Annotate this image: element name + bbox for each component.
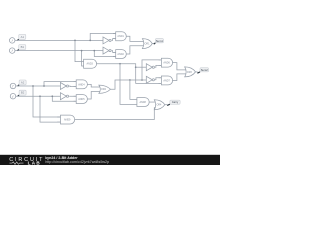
- logic input source V3 (A2): [10, 83, 16, 89]
- wire NOT4 output to AND5 upper input: [69, 95, 76, 97]
- AND gate U15: [159, 58, 173, 67]
- svg-text:AND8: AND8: [139, 101, 146, 104]
- svg-text:AND4: AND4: [78, 83, 85, 86]
- svg-text:OR3: OR3: [187, 71, 193, 74]
- junction B1/AND2: [93, 50, 95, 52]
- wire A2 riser to AND4 top input: [44, 82, 76, 86]
- junction A1/AND3: [74, 40, 76, 42]
- wire NOT2 output to AND2 upper input: [112, 51, 116, 53]
- node name flag A1: [17, 34, 26, 40]
- AND gate U10: [74, 95, 88, 104]
- junction B2/AND9: [39, 95, 41, 97]
- svg-text:AND6: AND6: [163, 62, 170, 65]
- OR gate U5: [142, 39, 152, 49]
- svg-text:Sum1: Sum1: [156, 39, 164, 43]
- NOT gate (inverter) U2: [103, 47, 111, 54]
- wire A2 riser to AND9 top input: [33, 86, 61, 117]
- svg-text:A1: A1: [21, 35, 25, 39]
- wire C1 from AND3 output across to second stage: [96, 64, 161, 84]
- AND gate U16: [159, 76, 173, 85]
- wire NOT6 output to AND7 upper input: [155, 78, 161, 80]
- logic input source V4 (B2): [10, 93, 16, 99]
- wire AND1 output to OR1 upper input: [126, 36, 144, 41]
- node name flag Sum1: [154, 39, 164, 45]
- junction xor rail branch to AND6: [141, 79, 143, 81]
- junction B1/AND3: [81, 50, 83, 52]
- wire AND9 output to OR4 lower input: [74, 108, 155, 120]
- AND gate U3: [113, 32, 126, 41]
- wire AND7 output to OR3 lower input: [172, 74, 186, 81]
- NOT gate (inverter) U7: [60, 83, 68, 90]
- wire NOT3 output to AND4 lower input: [69, 85, 76, 88]
- svg-text:http://circuitlab.com/c42jvrk7: http://circuitlab.com/c42jvrk7wd8s5w2p: [45, 160, 109, 164]
- svg-text:LAB: LAB: [28, 161, 41, 165]
- NOT gate (inverter) U8: [60, 93, 68, 100]
- wire rail riser up to AND6 top input: [142, 60, 161, 80]
- wire AND4 output to OR2 upper input: [87, 84, 100, 87]
- wire NOT5 output to AND6 lower input: [155, 65, 161, 67]
- wire B2 riser to AND5 bottom input: [52, 96, 76, 101]
- svg-text:AND2: AND2: [117, 53, 124, 56]
- AND gate U4: [113, 50, 126, 59]
- wire C1 riser down to AND8 bottom input: [120, 64, 137, 105]
- footer black bar: [0, 155, 220, 165]
- junction C1 branch to AND8: [119, 63, 121, 65]
- svg-text:Sum2: Sum2: [201, 68, 209, 72]
- NOT gate (inverter) U1: [103, 37, 111, 44]
- wire B2 riser to AND9 bottom input: [40, 96, 61, 122]
- svg-text:OR1: OR1: [145, 43, 151, 46]
- node name flag B1: [17, 45, 26, 51]
- svg-text:B1: B1: [21, 45, 25, 49]
- wire NOT1 output to AND1 lower input: [112, 39, 116, 41]
- NOT gate (inverter) U13: [146, 64, 154, 71]
- wire AND5 output to OR2 lower input: [87, 92, 100, 100]
- svg-text:Carry: Carry: [172, 100, 179, 104]
- junction A2/AND4: [43, 85, 45, 87]
- svg-text:OR2: OR2: [101, 88, 107, 91]
- svg-text:AND3: AND3: [87, 63, 94, 66]
- wire OR2 output up to second stage rail: [111, 80, 147, 89]
- wire rail riser down to AND8 top input: [130, 80, 137, 99]
- svg-text:OR4: OR4: [156, 104, 162, 107]
- AND gate U9: [74, 80, 88, 89]
- OR gate U17: [185, 67, 196, 77]
- node name flag B2: [18, 90, 27, 96]
- wire B1 riser to AND3 bottom input: [82, 51, 84, 66]
- svg-text:B2: B2: [21, 91, 25, 95]
- wire A1 riser to AND3 top input: [75, 40, 84, 61]
- wire AND2 output to OR1 lower input: [126, 46, 144, 54]
- wire A2 rail: [16, 85, 60, 87]
- wire B1 riser to AND2 bottom input: [94, 51, 115, 57]
- svg-text:A2: A2: [21, 80, 25, 84]
- wire OR3 output to Sum2 flag: [196, 71, 198, 73]
- wire AND8 output to OR4 upper input: [149, 101, 156, 103]
- AND gate U6: [84, 59, 97, 68]
- wire AND6 output to OR3 upper input: [172, 63, 186, 70]
- wire B1 rail: [15, 50, 103, 52]
- wire OR4 output to Carry flag: [165, 104, 168, 106]
- node name flag Sum2: [197, 68, 208, 73]
- OR gate U19: [154, 100, 165, 110]
- NOT gate (inverter) U14: [146, 76, 154, 83]
- junction xor rail branch to AND8: [129, 79, 131, 81]
- logic input source V1 (A1): [9, 38, 15, 44]
- OR gate U11: [99, 85, 111, 93]
- svg-text:AND1: AND1: [117, 35, 124, 38]
- wire C1 stub into NOT5: [136, 66, 147, 68]
- wire A1 riser to AND1 top input: [90, 34, 116, 41]
- CircuitLab logo resistor squiggle: [10, 162, 24, 164]
- svg-text:AND7: AND7: [163, 79, 170, 82]
- svg-text:AND9: AND9: [64, 118, 71, 121]
- AND gate U18: [137, 98, 149, 107]
- node name flag Carry: [167, 100, 180, 105]
- svg-text:AND5: AND5: [78, 98, 85, 101]
- junction B2/AND5: [51, 95, 53, 97]
- wire OR1 output to Sum1 flag: [152, 43, 154, 45]
- logic input source V2 (B1): [9, 48, 15, 54]
- node name flag A2: [18, 80, 27, 86]
- junction A1/AND1: [89, 40, 91, 42]
- wire B2 rail: [16, 95, 60, 97]
- junction C1 branch to NOT5: [135, 66, 137, 68]
- AND gate U12: [57, 115, 75, 124]
- wire A1 rail: [15, 39, 103, 41]
- junction A2/AND9: [32, 85, 34, 87]
